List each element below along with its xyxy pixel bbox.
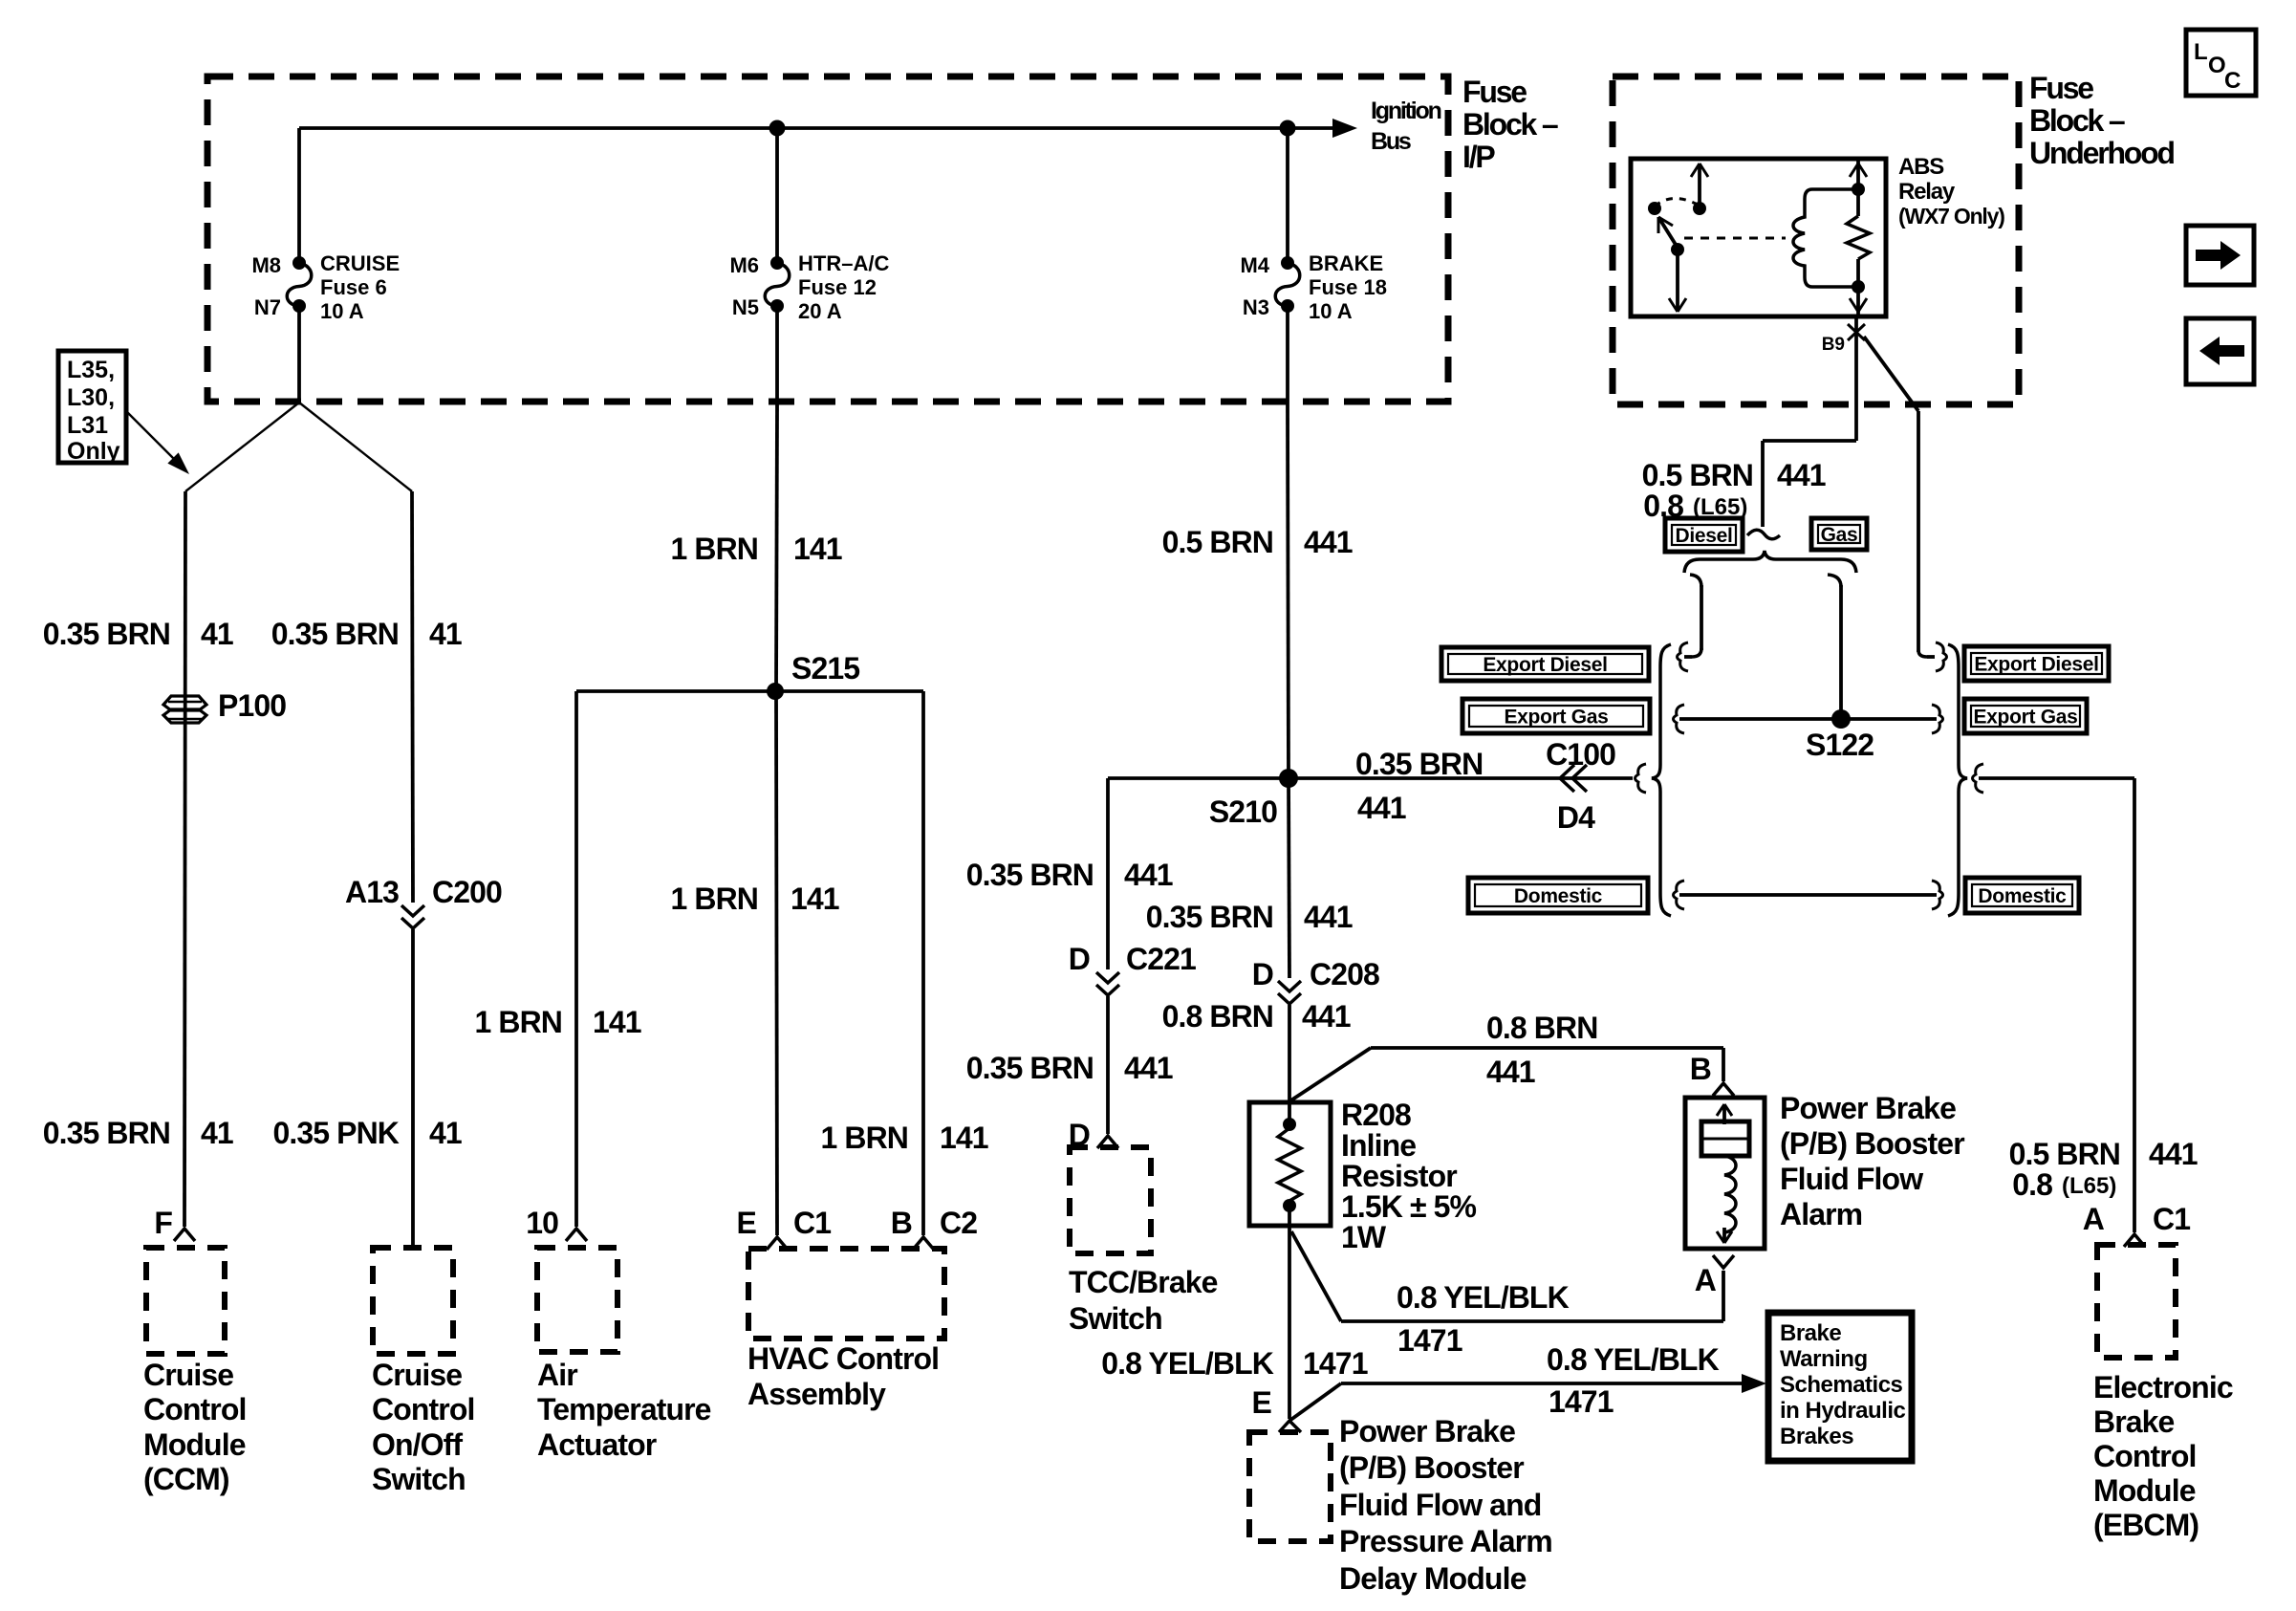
svg-text:Ignition: Ignition bbox=[1371, 98, 1441, 124]
svg-text:Only: Only bbox=[67, 438, 120, 465]
svg-text:Bus: Bus bbox=[1371, 128, 1411, 155]
svg-text:Switch: Switch bbox=[1069, 1301, 1162, 1336]
svg-text:Relay: Relay bbox=[1898, 179, 1956, 205]
svg-text:1 BRN: 1 BRN bbox=[820, 1121, 908, 1155]
svg-text:Fuse: Fuse bbox=[2029, 71, 2093, 105]
svg-text:P100: P100 bbox=[218, 688, 286, 723]
svg-text:(WX7 Only): (WX7 Only) bbox=[1898, 204, 2004, 229]
svg-text:Temperature: Temperature bbox=[537, 1392, 711, 1426]
svg-text:Fuse: Fuse bbox=[1462, 75, 1527, 109]
svg-text:C2: C2 bbox=[940, 1206, 977, 1240]
svg-text:B9: B9 bbox=[1822, 335, 1845, 355]
svg-text:Fluid Flow and: Fluid Flow and bbox=[1339, 1488, 1541, 1522]
svg-text:C100: C100 bbox=[1546, 737, 1615, 772]
svg-text:0.8 YEL/BLK: 0.8 YEL/BLK bbox=[1397, 1280, 1570, 1315]
svg-text:0.8 BRN: 0.8 BRN bbox=[1162, 999, 1273, 1034]
svg-text:E: E bbox=[1252, 1385, 1272, 1420]
svg-text:D4: D4 bbox=[1557, 800, 1595, 835]
svg-text:0.35 BRN: 0.35 BRN bbox=[271, 617, 399, 651]
svg-text:141: 141 bbox=[791, 882, 839, 916]
svg-text:Block –: Block – bbox=[1462, 107, 1558, 142]
svg-text:141: 141 bbox=[940, 1121, 988, 1155]
svg-text:Fuse 12: Fuse 12 bbox=[798, 275, 877, 299]
svg-text:Brake: Brake bbox=[1780, 1320, 1841, 1346]
svg-text:S210: S210 bbox=[1209, 795, 1277, 829]
svg-text:0.35 BRN: 0.35 BRN bbox=[1146, 900, 1273, 934]
svg-text:Alarm: Alarm bbox=[1780, 1197, 1862, 1231]
svg-text:141: 141 bbox=[793, 532, 842, 566]
svg-text:S122: S122 bbox=[1806, 728, 1874, 762]
svg-text:41: 41 bbox=[201, 1116, 233, 1150]
svg-text:Actuator: Actuator bbox=[537, 1427, 657, 1462]
svg-text:E: E bbox=[737, 1206, 757, 1240]
svg-text:(P/B) Booster: (P/B) Booster bbox=[1780, 1126, 1964, 1161]
svg-text:0.35 BRN: 0.35 BRN bbox=[966, 858, 1094, 892]
svg-text:B: B bbox=[1690, 1052, 1711, 1086]
svg-text:N7: N7 bbox=[254, 295, 281, 319]
svg-text:L31: L31 bbox=[67, 412, 108, 439]
svg-text:0.8 YEL/BLK: 0.8 YEL/BLK bbox=[1547, 1342, 1720, 1377]
svg-text:1471: 1471 bbox=[1303, 1346, 1368, 1381]
svg-text:Power Brake: Power Brake bbox=[1780, 1091, 1956, 1125]
svg-text:1W: 1W bbox=[1341, 1220, 1387, 1254]
svg-text:Air: Air bbox=[537, 1358, 577, 1392]
svg-text:BRAKE: BRAKE bbox=[1309, 251, 1383, 275]
svg-text:A: A bbox=[2083, 1202, 2105, 1236]
svg-text:(CCM): (CCM) bbox=[143, 1462, 229, 1496]
svg-text:0.8 YEL/BLK: 0.8 YEL/BLK bbox=[1101, 1346, 1274, 1381]
svg-text:N5: N5 bbox=[732, 295, 759, 319]
svg-text:20 A: 20 A bbox=[798, 299, 842, 323]
svg-text:441: 441 bbox=[1357, 791, 1406, 825]
svg-text:C: C bbox=[2224, 68, 2241, 94]
svg-text:Brake: Brake bbox=[2093, 1404, 2175, 1439]
svg-text:1 BRN: 1 BRN bbox=[670, 882, 758, 916]
svg-text:A13: A13 bbox=[345, 875, 399, 909]
svg-text:HVAC Control: HVAC Control bbox=[747, 1341, 939, 1376]
svg-text:Inline: Inline bbox=[1341, 1128, 1416, 1163]
svg-text:141: 141 bbox=[593, 1005, 641, 1039]
svg-text:Brakes: Brakes bbox=[1780, 1424, 1853, 1449]
svg-text:0.5 BRN: 0.5 BRN bbox=[1162, 525, 1273, 559]
svg-text:0.35 BRN: 0.35 BRN bbox=[43, 617, 170, 651]
svg-text:M6: M6 bbox=[729, 253, 759, 277]
svg-text:0.8: 0.8 bbox=[2012, 1167, 2052, 1202]
svg-text:441: 441 bbox=[1486, 1055, 1535, 1089]
svg-text:441: 441 bbox=[1304, 525, 1353, 559]
svg-text:0.35 BRN: 0.35 BRN bbox=[43, 1116, 170, 1150]
svg-text:Control: Control bbox=[143, 1392, 246, 1426]
svg-text:L35,: L35, bbox=[67, 357, 115, 383]
svg-text:A: A bbox=[1695, 1263, 1717, 1297]
svg-text:Fuse 6: Fuse 6 bbox=[320, 275, 387, 299]
svg-text:0.35 BRN: 0.35 BRN bbox=[1355, 747, 1483, 781]
svg-text:10: 10 bbox=[526, 1206, 558, 1240]
svg-text:0.35 BRN: 0.35 BRN bbox=[966, 1051, 1094, 1085]
svg-text:D: D bbox=[1252, 957, 1273, 991]
svg-text:Delay Module: Delay Module bbox=[1339, 1561, 1527, 1596]
svg-text:0.8 BRN: 0.8 BRN bbox=[1486, 1011, 1597, 1045]
svg-text:441: 441 bbox=[1302, 999, 1351, 1034]
svg-text:I/P: I/P bbox=[1462, 140, 1495, 174]
svg-text:S215: S215 bbox=[791, 651, 859, 686]
svg-text:0.5 BRN: 0.5 BRN bbox=[2009, 1137, 2120, 1171]
svg-text:441: 441 bbox=[1124, 1051, 1173, 1085]
svg-text:D: D bbox=[1069, 942, 1090, 976]
svg-text:Export Gas: Export Gas bbox=[1504, 707, 1608, 729]
svg-text:Pressure Alarm: Pressure Alarm bbox=[1339, 1524, 1552, 1558]
svg-text:Gas: Gas bbox=[1821, 524, 1858, 546]
svg-text:441: 441 bbox=[1777, 458, 1826, 492]
svg-text:M8: M8 bbox=[251, 253, 281, 277]
svg-text:1471: 1471 bbox=[1549, 1384, 1614, 1419]
svg-text:Power Brake: Power Brake bbox=[1339, 1414, 1515, 1448]
svg-text:441: 441 bbox=[2149, 1137, 2198, 1171]
svg-text:41: 41 bbox=[201, 617, 233, 651]
svg-text:0.5 BRN: 0.5 BRN bbox=[1642, 458, 1753, 492]
svg-text:Assembly: Assembly bbox=[747, 1377, 886, 1411]
svg-text:Domestic: Domestic bbox=[1514, 885, 1603, 907]
svg-text:0.35 PNK: 0.35 PNK bbox=[272, 1116, 399, 1150]
svg-text:L: L bbox=[2194, 39, 2208, 65]
svg-text:Cruise: Cruise bbox=[372, 1358, 462, 1392]
svg-text:1.5K ± 5%: 1.5K ± 5% bbox=[1341, 1189, 1477, 1224]
svg-text:ABS: ABS bbox=[1898, 154, 1944, 180]
svg-text:Domestic: Domestic bbox=[1978, 885, 2067, 907]
svg-text:R208: R208 bbox=[1341, 1098, 1411, 1132]
svg-text:(L65): (L65) bbox=[2062, 1173, 2116, 1199]
svg-text:Electronic: Electronic bbox=[2093, 1370, 2233, 1404]
svg-text:Control: Control bbox=[372, 1392, 474, 1426]
svg-text:C200: C200 bbox=[432, 875, 502, 909]
svg-text:Fuse 18: Fuse 18 bbox=[1309, 275, 1387, 299]
svg-text:Switch: Switch bbox=[372, 1462, 466, 1496]
svg-text:L30,: L30, bbox=[67, 384, 115, 411]
svg-text:Export Diesel: Export Diesel bbox=[1483, 654, 1607, 676]
svg-text:Fluid Flow: Fluid Flow bbox=[1780, 1162, 1923, 1196]
svg-text:HTR–A/C: HTR–A/C bbox=[798, 251, 889, 275]
svg-text:Control: Control bbox=[2093, 1439, 2196, 1473]
svg-text:Module: Module bbox=[2093, 1473, 2196, 1508]
svg-text:Diesel: Diesel bbox=[1675, 525, 1732, 547]
svg-text:M4: M4 bbox=[1240, 253, 1269, 277]
svg-text:1 BRN: 1 BRN bbox=[474, 1005, 562, 1039]
svg-text:Underhood: Underhood bbox=[2029, 136, 2174, 170]
svg-text:O: O bbox=[2208, 53, 2226, 78]
svg-text:Schematics: Schematics bbox=[1780, 1372, 1903, 1398]
svg-text:B: B bbox=[891, 1206, 912, 1240]
svg-text:Export Diesel: Export Diesel bbox=[1974, 654, 2098, 676]
svg-text:41: 41 bbox=[429, 1116, 462, 1150]
svg-text:10 A: 10 A bbox=[320, 299, 364, 323]
svg-text:CRUISE: CRUISE bbox=[320, 251, 400, 275]
svg-text:1 BRN: 1 BRN bbox=[670, 532, 758, 566]
svg-text:Block –: Block – bbox=[2029, 103, 2125, 138]
svg-text:1471: 1471 bbox=[1397, 1323, 1462, 1358]
svg-text:(EBCM): (EBCM) bbox=[2093, 1508, 2199, 1542]
svg-text:41: 41 bbox=[429, 617, 462, 651]
svg-text:On/Off: On/Off bbox=[372, 1427, 463, 1462]
svg-text:F: F bbox=[154, 1206, 172, 1240]
svg-text:TCC/Brake: TCC/Brake bbox=[1069, 1265, 1218, 1299]
svg-text:441: 441 bbox=[1304, 900, 1353, 934]
svg-text:C1: C1 bbox=[793, 1206, 831, 1240]
svg-text:C208: C208 bbox=[1310, 957, 1379, 991]
svg-text:Warning: Warning bbox=[1780, 1346, 1868, 1372]
svg-text:N3: N3 bbox=[1243, 295, 1269, 319]
svg-text:10 A: 10 A bbox=[1309, 299, 1353, 323]
svg-text:Export Gas: Export Gas bbox=[1973, 707, 2077, 729]
svg-text:(P/B) Booster: (P/B) Booster bbox=[1339, 1450, 1524, 1485]
svg-text:Cruise: Cruise bbox=[143, 1358, 233, 1392]
svg-text:Module: Module bbox=[143, 1427, 246, 1462]
svg-text:C221: C221 bbox=[1126, 942, 1196, 976]
svg-text:441: 441 bbox=[1124, 858, 1173, 892]
svg-text:C1: C1 bbox=[2153, 1202, 2190, 1236]
svg-text:Resistor: Resistor bbox=[1341, 1159, 1457, 1193]
svg-text:in Hydraulic: in Hydraulic bbox=[1780, 1398, 1906, 1424]
